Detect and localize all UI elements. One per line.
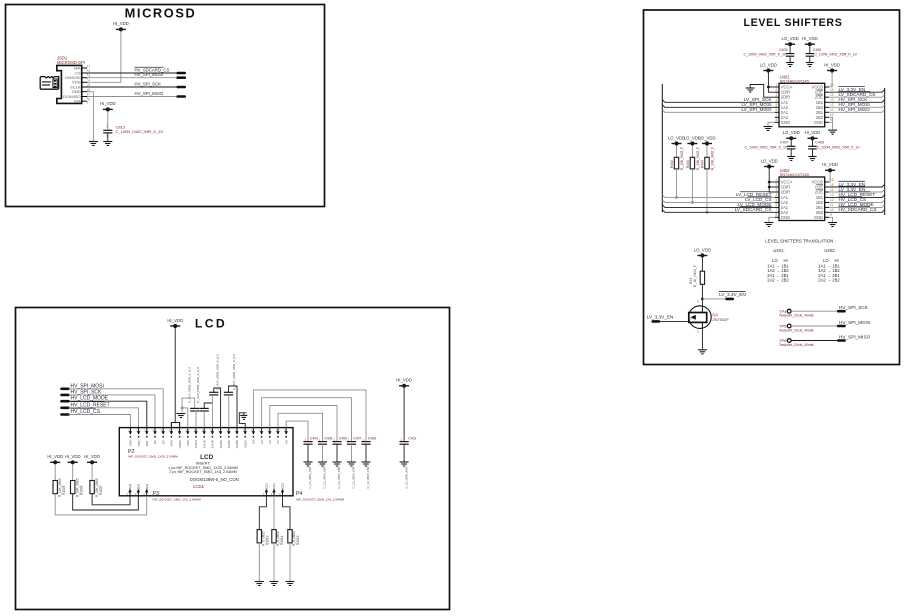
wire U401 2B2 tie [829,117,833,122]
svg-text:C_1U_0805_X5R: C_1U_0805_X5R [366,467,370,489]
wire C407 to gnd [351,444,353,461]
resistor R1014 [272,530,276,543]
ground C405 gnd [318,462,327,466]
wire U402 GND left [769,217,775,222]
ground cluster gnd A [176,414,185,418]
capacitor C408 [808,146,816,149]
svg-text:C86: C86 [129,440,133,446]
svg-text:LO_VDD: LO_VDD [694,247,711,252]
svg-text:R_10K_0402_F: R_10K_0402_F [696,147,700,170]
svg-text:HI_VDD: HI_VDD [84,454,100,459]
bus HV/EN (right) [884,88,886,215]
capacitor C404a [209,392,218,395]
LCD sheet frame [16,308,450,610]
svg-text:2: 2 [697,330,699,334]
wire HV_SPI_SCK into LCD [69,395,156,428]
wire C404a top to pin12 [214,388,221,428]
wire C404 to gnd [307,444,309,461]
svg-text:LEVEL SHIFTERS TRANSLATION :: LEVEL SHIFTERS TRANSLATION : [765,238,835,243]
wire C405a top to pin14 [229,386,238,428]
svg-text:C404: C404 [310,437,318,441]
svg-text:INF_SOCKET_SMD_1X20_2.54MM: INF_SOCKET_SMD_1X20_2.54MM [128,454,178,458]
svg-text:HV_SPI_SCK: HV_SPI_SCK [135,82,162,87]
svg-text:R_1K_0402_F: R_1K_0402_F [693,265,697,287]
capacitor C405 [318,442,327,445]
ground R1013 gnd [255,582,264,586]
svg-text:7: 7 [776,208,778,212]
net stub TP4 stub [838,310,844,313]
wire U401 GND right [829,122,833,129]
capacitor C406 [806,54,814,57]
wire LV_LCD_MODE [662,205,774,208]
svg-text:HV_SPI_MISO: HV_SPI_MISO [135,91,164,96]
net stub HV_SDCARD_CS [178,72,185,75]
svg-text:C405: C405 [779,48,788,52]
wire LV_LCD_RESET [662,195,774,198]
svg-text:R_10K_0402_F: R_10K_0402_F [711,147,715,170]
wire HI_VDD to U401 VCCB [829,73,832,87]
svg-text:14: 14 [830,188,834,192]
svg-text:VSS: VSS [186,440,190,446]
wire C407 bot [790,149,792,156]
pin-side dashed marker [87,65,89,103]
wire pin19 to C405 [278,413,323,441]
svg-text:2A2 → 2B2: 2A2 → 2B2 [818,278,840,283]
ground cluster gnd B [240,415,247,419]
wire LV_SPI_MOSI [662,105,774,108]
svg-text:R1003: R1003 [62,485,66,495]
ground C407 gnd [347,462,356,466]
svg-text:CA3N: CA3N [219,440,223,448]
capacitor C405a [224,392,233,395]
svg-text:R1005: R1005 [99,485,103,495]
resistor R404 [705,157,709,169]
svg-text:C_10_0805_X5R: C_10_0805_X5R [404,467,408,488]
wire LV_SDCARD_CS [662,210,774,213]
ground C401 gnd [400,462,409,466]
svg-text:10: 10 [830,208,834,212]
svg-text:LO_VDD: LO_VDD [668,135,685,140]
svg-text:15: 15 [830,88,834,92]
svg-text:MICROSD: MICROSD [125,6,197,21]
wire C405a bottom to pin13 [228,395,230,428]
power symbol HI_VDD (microsd top) [113,21,129,31]
wire HV_SPI_MISO to bus [829,110,885,113]
svg-text:HI_VDD: HI_VDD [47,454,63,459]
svg-text:8: 8 [776,118,778,122]
power symbol LO_VDD (R404 rail) [698,135,715,145]
resistor R1013 [257,530,261,543]
wire R1013 to gnd [258,543,260,581]
bus LV (left) [661,84,663,212]
svg-text:1: 1 [776,83,778,87]
ground C406 gnd [806,63,814,67]
U402 pins [775,181,779,183]
LCD bottom pins P4 [263,483,269,496]
wire TP4 wire [791,310,838,312]
wire C403 to pin10 [203,411,205,428]
svg-text:CA1N: CA1N [194,440,198,448]
svg-text:Testpoint_Circle_40mils: Testpoint_Circle_40mils [779,343,814,347]
svg-text:NC[3]: NC[3] [281,483,285,491]
svg-text:LO_VDD: LO_VDD [761,158,778,163]
ground connector gnd [89,142,98,146]
svg-text:HV_SPI_MISO: HV_SPI_MISO [839,107,871,112]
svg-text:11: 11 [830,203,834,207]
wire HI_VDD to VDD pin [87,31,121,82]
wire R1004 top [72,464,74,480]
svg-text:HI_VDD: HI_VDD [802,36,818,41]
svg-text:INF_SOCKET_SMD_1X3_2.54MM: INF_SOCKET_SMD_1X3_2.54MM [153,497,202,501]
svg-text:12: 12 [830,198,834,202]
wire R1005 top [91,464,93,480]
svg-text:GND: GND [814,215,823,220]
svg-text:RST: RST [145,440,149,446]
svg-text:C_4U7_0805_X5R_K_6.3: C_4U7_0805_X5R_K_6.3 [232,354,236,390]
power symbol LO_VDD (c405 rail) [781,36,798,46]
svg-text:8: 8 [88,97,90,101]
power symbol HI_VDD (u401 vccb) [824,62,840,72]
svg-text:HI_VDD: HI_VDD [396,378,412,383]
U401 pins [775,86,779,88]
ground C406 gnd [333,462,342,466]
wire LO_VDD to R13 [701,258,703,272]
ground C813 gnd [103,142,112,146]
LCD top pins P2 1-20 [128,428,133,446]
svg-text:HI_VDD: HI_VDD [824,62,840,67]
junction u402 vcca node [768,181,771,184]
svg-text:LCD: LCD [195,316,227,330]
resistor R1015 [288,530,292,543]
svg-text:LV_SPI_MISO: LV_SPI_MISO [741,107,771,112]
ground u402 gnd right [828,223,837,227]
wire HV_LCD_MODE into LCD [69,401,147,427]
resistor R1005 [90,481,94,494]
wire HV_SPI_MOSI [87,77,178,79]
power symbol HI_VDD (c406 rail) [802,36,818,46]
power symbol HI_VDD (cap rail) [100,101,116,111]
wire bracket pins 6-7 [171,423,179,428]
resistor R1003 [53,481,57,494]
power symbol HI_VDD (pullup R1004) [65,454,81,464]
svg-text:12: 12 [830,103,834,107]
junction u402 1dir node [768,186,771,189]
wire U402 GND right [829,217,833,222]
power symbol LO_VDD (u402 vcca) [761,158,778,168]
wire HV_SPI_SCK to bus [829,100,885,103]
svg-text:2N7002F: 2N7002F [712,317,729,322]
svg-text:V4: V4 [252,440,256,444]
svg-text:P4: P4 [296,491,302,497]
svg-text:C406: C406 [813,48,822,52]
svg-text:HV_SDCARD_CS: HV_SDCARD_CS [839,207,877,212]
svg-text:V3: V3 [260,440,264,444]
wire R1003 to P3 [55,494,147,515]
svg-text:1: 1 [690,317,692,321]
svg-text:LO_VDD: LO_VDD [698,135,715,140]
svg-text:7: 7 [776,113,778,117]
wire pin16 to C408 [253,390,366,442]
svg-text:13: 13 [830,193,834,197]
svg-text:C401: C401 [408,437,416,441]
wire C408 to gnd [365,444,367,461]
wire gnd elbow pin8 [182,398,195,412]
svg-text:GND: GND [781,120,790,125]
wire C406 top [809,46,811,53]
power symbol HI_VDD (c408 rail) [805,130,821,140]
svg-text:K1[A]: K1[A] [128,484,132,492]
svg-text:D6: D6 [153,440,157,444]
capacitor C407 [347,442,356,445]
ground C405 gnd [786,63,794,67]
wire C408 bot [812,149,814,156]
svg-text:HI_VDD: HI_VDD [65,454,81,459]
wire R1013 from P4 [259,496,266,530]
svg-text:LO_VDD: LO_VDD [760,62,777,67]
svg-text:2: 2 [776,88,778,92]
net stub HV_LCD_CS [62,413,69,416]
svg-text:CA5N: CA5N [235,440,239,448]
svg-text:R1013: R1013 [265,535,269,545]
wire GND pin to ground [87,92,93,142]
wire gate wire [659,320,689,322]
wire U402 1dir branch [769,186,775,188]
svg-text:C408: C408 [368,437,376,441]
wire tie gnd stub [243,413,245,416]
svg-text:C_100N_0402_X5R_K_10: C_100N_0402_X5R_K_10 [744,146,787,150]
wire R1014 from P4 [273,496,275,530]
wire VCCA branch [768,86,774,88]
svg-text:9: 9 [830,118,832,122]
wire HI_VDD trunk to pins 6-7 [174,328,176,422]
svg-text:R1014: R1014 [280,535,284,545]
svg-text:2A2 ← 2B2: 2A2 ← 2B2 [767,278,789,283]
wire LV_3.3V_EN to bus [829,184,885,187]
wire C405 top [789,46,791,53]
wire HV_LCD_MODE to bus [829,205,885,208]
svg-text:C_100N_0402_X5R_K_10: C_100N_0402_X5R_K_10 [743,53,786,57]
svg-text:HI_VDD: HI_VDD [822,162,838,167]
svg-text:5: 5 [776,198,778,202]
svg-text:HI_VDD: HI_VDD [167,318,183,323]
svg-text:6: 6 [776,108,778,112]
wire LV_3.3V_EN to bus [829,90,885,93]
wire R404 top [706,146,708,158]
net stub LV_3.3V_EN_N [727,298,733,301]
wire R13 to Q3 drain [701,284,703,306]
svg-text:GND: GND [814,120,823,125]
svg-text:C407: C407 [353,437,361,441]
svg-text:6: 6 [776,203,778,207]
power symbol LO_VDD (R402 rail) [668,135,685,145]
svg-text:GND: GND [781,215,790,220]
svg-text:LV_SDCARD_CS: LV_SDCARD_CS [735,207,772,212]
junction pin8 node [181,407,184,410]
wire R402 top [676,146,678,158]
net stub HV_SPI_SCK [62,394,69,397]
svg-text:11: 11 [830,108,834,112]
svg-text:14: 14 [830,93,834,97]
net stub TP5 stub [838,325,844,328]
ground u401 gnd right [828,130,837,134]
svg-text:U402:: U402: [824,248,835,253]
svg-text:LO_VDD: LO_VDD [783,130,800,135]
svg-text:HV_SPI_MOSI: HV_SPI_MOSI [135,72,164,77]
svg-text:INF_SOCKET_SMD_1X3_2.54MM: INF_SOCKET_SMD_1X3_2.54MM [296,497,345,501]
ground C408 gnd [362,462,371,466]
svg-text:Testpoint_Circle_40mils: Testpoint_Circle_40mils [779,328,814,332]
capacitor C402 [190,408,199,411]
net stub HV_LCD_RESET [62,406,69,409]
power symbol HI_VDD (lcd main) [167,318,183,328]
wire HV_SDCARD_CS [87,72,178,74]
wire R1004 to P3 [73,494,139,510]
svg-text:LV_3.3V_EN: LV_3.3V_EN [839,187,866,192]
svg-text:C_1U_0805_X5R: C_1U_0805_X5R [352,467,356,489]
svg-text:13: 13 [830,98,834,102]
wire LV_SPI_SCK [662,100,774,103]
svg-text:INSERT:: INSERT: [196,462,211,466]
resistor R403 [690,157,694,169]
svg-text:HV_SPI_SCK: HV_SPI_SCK [839,305,869,310]
net stub LV_3.3V_EN gate [653,320,659,323]
svg-text:C_100N_0402_X5R_K_10: C_100N_0402_X5R_K_10 [814,53,857,57]
capacitor C407 [787,146,795,149]
wire R1014 to gnd [273,543,275,581]
wire pin20 to C404 [286,421,308,442]
junction drain node [701,298,704,301]
svg-text:2DIR: 2DIR [781,190,790,195]
wire U401 GND left [768,122,775,126]
wire HV_LCD_RESET into LCD [69,408,139,428]
svg-text:C_4U7_0805_X5R_K_6.3: C_4U7_0805_X5R_K_6.3 [196,367,200,403]
wire R1015 from P4 [283,496,291,530]
wire U401 2DIR to gnd [750,85,775,98]
LCD bottom pins P3 [127,484,133,496]
wire U402 vcca branch [769,181,775,183]
transistor Q3 2N7002F [689,306,712,329]
svg-text:K2[A]: K2[A] [137,484,141,492]
resistor R13 [700,271,704,284]
wire Q3 source to gnd [701,328,703,349]
wire C405 to gnd [322,444,324,461]
wire HV_SPI_MOSI to bus [829,105,885,108]
svg-text:16: 16 [830,178,834,182]
ground q3 gnd [698,350,707,354]
wire R1015 to gnd [289,543,291,581]
wire LV_SDCARD_CS to bus [829,95,885,98]
capacitor C403 [200,408,209,411]
wire HV_SPI_MOSI into LCD [69,389,164,428]
junction R403 node [691,201,694,204]
svg-text:C_4U7_0805_X5R_K_6.3: C_4U7_0805_X5R_K_6.3 [216,354,220,390]
wire pin17 to C407 [262,398,352,442]
svg-text:R403: R403 [686,160,690,168]
wire C404a bottom to pin11 [211,395,213,428]
wire C406 bot [809,56,811,62]
svg-text:MICROSD-SPI: MICROSD-SPI [57,60,85,65]
wire R404 bottom [706,169,708,212]
LCD module LCD1 (DOGM128W-6) [119,428,293,496]
microSD card icon [40,77,59,90]
svg-text:2: 2 [106,135,108,139]
wire HV_SPI_MISO [87,96,178,98]
svg-text:LCD: LCD [200,454,214,461]
svg-text:CA1P: CA1P [202,440,206,448]
capacitor C401 [400,442,409,445]
svg-text:1: 1 [88,64,90,68]
svg-text:2: 2 [776,183,778,187]
power symbol HI_VDD (lcd vdd cap) [396,378,412,388]
svg-text:V1: V1 [276,440,280,444]
net stub HV_LCD_MODE [62,400,69,403]
ground R1015 gnd [286,582,295,586]
svg-text:R404: R404 [701,160,705,168]
wire LV_LCD_CS [662,200,774,203]
svg-text:VSS2: VSS2 [243,440,247,448]
net stub HV_SPI_MISO [178,95,185,98]
svg-text:HV_SPI_MISO: HV_SPI_MISO [839,334,871,339]
connector pins JSD1 [82,67,87,69]
wire pins 14-15 tie [239,413,246,428]
svg-text:HI_VDD: HI_VDD [100,101,116,106]
svg-text:15: 15 [830,183,834,187]
svg-text:3: 3 [776,93,778,97]
svg-text:N/A: N/A [74,99,81,104]
power symbol HI_VDD (u402 vccb) [822,162,838,172]
capacitor C813 [103,130,112,133]
capacitor C406 [332,442,341,445]
svg-text:P3: P3 [153,491,159,497]
svg-text:CA3P: CA3P [211,440,215,448]
svg-text:2OE: 2OE [815,190,823,195]
svg-text:3: 3 [697,300,699,304]
wire pin8 drop [182,408,188,428]
power symbol HI_VDD (pullup R1005) [84,454,100,464]
power symbol LO_VDD (q3 rail) [694,247,711,257]
svg-text:1: 1 [106,125,108,129]
connector JSD1 MICROSD-SPI [57,65,82,103]
svg-text:C_100N_0402_X5R_K_10: C_100N_0402_X5R_K_10 [817,146,860,150]
wire R403 bottom [691,169,693,203]
svg-text:NC[2]: NC[2] [272,483,276,491]
wire LO_VDD to U402 VCCA/DIR [769,169,775,192]
svg-text:CA5P: CA5P [227,440,231,448]
svg-text:4: 4 [776,98,778,102]
svg-text:C_1U_0805_X5R: C_1U_0805_X5R [323,467,327,489]
ground u401 dir gnd [746,88,755,92]
svg-text:R1004: R1004 [80,485,84,495]
wire R1005 to P3 [92,494,130,505]
wire pin18 to C406 [270,406,337,442]
svg-text:D7: D7 [161,440,165,444]
svg-text:C406: C406 [339,437,347,441]
wire HI_VDD to U402 VCCB [829,172,830,182]
svg-text:4: 4 [776,193,778,197]
junction R404 node [706,211,709,214]
resistor R1004 [71,481,75,494]
svg-text:4: 4 [88,79,90,83]
wire TP6 wire [791,340,838,342]
wire HI_VDD to C401 [403,388,405,442]
svg-text:LV_3.3V_EN: LV_3.3V_EN [647,314,674,319]
svg-text:V2: V2 [268,440,272,444]
power symbol HI_VDD (pullup R1003) [47,454,63,464]
svg-text:NC[1]: NC[1] [265,483,269,491]
net stub HV_SPI_MOSI [62,387,69,390]
net stub HV_SPI_MOSI [178,76,185,79]
svg-text:C_1U_0805_X5R: C_1U_0805_X5R [337,467,341,489]
